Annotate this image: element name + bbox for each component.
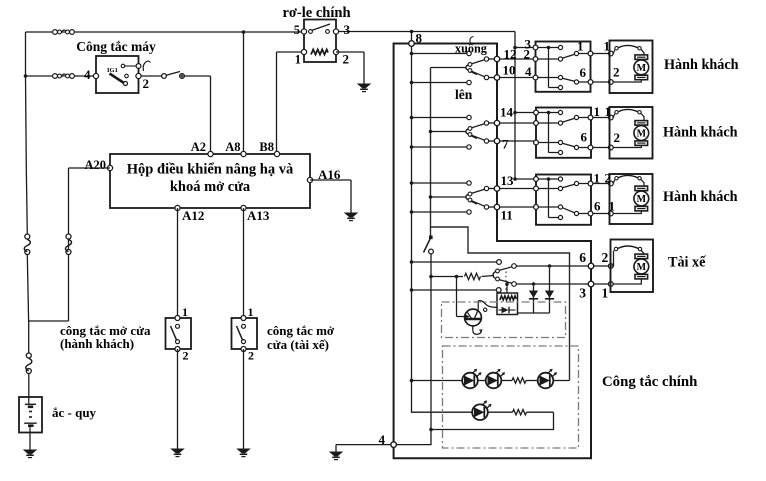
svg-text:Hành khách: Hành khách	[664, 57, 739, 73]
svg-text:2: 2	[614, 130, 621, 145]
svg-text:cửa (tài xế): cửa (tài xế)	[267, 337, 329, 352]
svg-text:2: 2	[183, 349, 189, 363]
svg-text:6: 6	[580, 65, 587, 80]
svg-text:1: 1	[182, 305, 188, 319]
svg-text:ắc - quy: ắc - quy	[52, 405, 97, 420]
svg-text:2: 2	[613, 65, 620, 80]
svg-text:B8: B8	[259, 140, 274, 154]
svg-text:công tắc mở: công tắc mở	[267, 323, 335, 338]
svg-text:Hành khách: Hành khách	[663, 189, 738, 205]
svg-text:A13: A13	[247, 208, 270, 223]
svg-text:1: 1	[602, 286, 609, 301]
svg-text:Công tắc máy: Công tắc máy	[76, 39, 156, 54]
svg-text:11: 11	[501, 208, 513, 223]
svg-text:4: 4	[525, 64, 532, 79]
svg-text:1: 1	[594, 171, 601, 186]
svg-text:4: 4	[84, 67, 91, 82]
svg-text:Công tắc chính: Công tắc chính	[602, 374, 697, 390]
svg-text:7: 7	[502, 137, 509, 152]
svg-text:2: 2	[605, 171, 612, 186]
svg-text:1: 1	[248, 305, 254, 319]
svg-text:2: 2	[343, 52, 350, 67]
svg-text:Hộp điều khiển nâng hạ và: Hộp điều khiển nâng hạ và	[127, 162, 294, 178]
svg-text:3: 3	[344, 22, 351, 37]
svg-text:xuống: xuống	[455, 42, 487, 56]
svg-text:lên: lên	[455, 87, 473, 102]
svg-text:1: 1	[295, 53, 301, 67]
svg-text:A12: A12	[182, 208, 204, 223]
svg-text:1: 1	[594, 104, 601, 119]
svg-text:8: 8	[416, 31, 423, 46]
svg-text:14: 14	[500, 105, 514, 120]
svg-text:A8: A8	[225, 140, 240, 154]
svg-text:M: M	[637, 63, 647, 74]
svg-text:2: 2	[248, 349, 254, 363]
svg-text:M: M	[637, 262, 647, 273]
svg-text:1: 1	[577, 39, 584, 54]
svg-text:13: 13	[501, 173, 515, 188]
svg-text:Hành khách: Hành khách	[663, 125, 738, 141]
svg-text:M: M	[637, 194, 647, 205]
svg-text:A20: A20	[84, 158, 106, 172]
svg-text:10: 10	[503, 63, 516, 78]
svg-text:M: M	[637, 129, 647, 140]
svg-text:Tài xế: Tài xế	[668, 255, 706, 271]
svg-text:IG1: IG1	[107, 67, 118, 74]
svg-text:1: 1	[604, 39, 611, 54]
svg-text:6: 6	[581, 130, 588, 145]
svg-text:6: 6	[579, 250, 586, 265]
svg-text:1: 1	[605, 104, 612, 119]
svg-text:(hành khách): (hành khách)	[60, 336, 134, 351]
svg-text:2: 2	[602, 250, 609, 265]
svg-text:5: 5	[294, 23, 300, 37]
svg-text:A2: A2	[191, 140, 206, 154]
svg-text:6: 6	[594, 199, 601, 214]
svg-text:2: 2	[524, 47, 531, 62]
svg-text:1: 1	[609, 199, 616, 214]
svg-text:3: 3	[579, 286, 586, 301]
svg-text:2: 2	[143, 76, 150, 91]
svg-text:khoá mở cửa: khoá mở cửa	[170, 179, 251, 195]
